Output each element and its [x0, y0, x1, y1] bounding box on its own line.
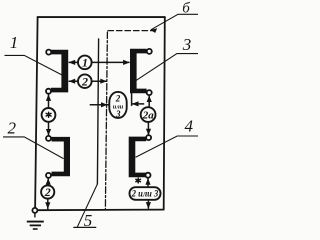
svg-text:2: 2: [7, 118, 16, 137]
svg-text:2: 2: [81, 74, 88, 88]
svg-text:2: 2: [44, 185, 51, 199]
svg-text:б: б: [182, 1, 190, 17]
svg-text:1: 1: [82, 56, 88, 70]
svg-text:3: 3: [182, 35, 192, 54]
svg-text:4: 4: [185, 116, 194, 135]
svg-text:2 или 3: 2 или 3: [131, 190, 159, 200]
svg-text:5: 5: [84, 211, 93, 230]
svg-text:1: 1: [10, 33, 19, 52]
svg-text:2: 2: [115, 93, 121, 103]
svg-text:3: 3: [115, 109, 121, 119]
svg-text:2а: 2а: [142, 109, 155, 121]
